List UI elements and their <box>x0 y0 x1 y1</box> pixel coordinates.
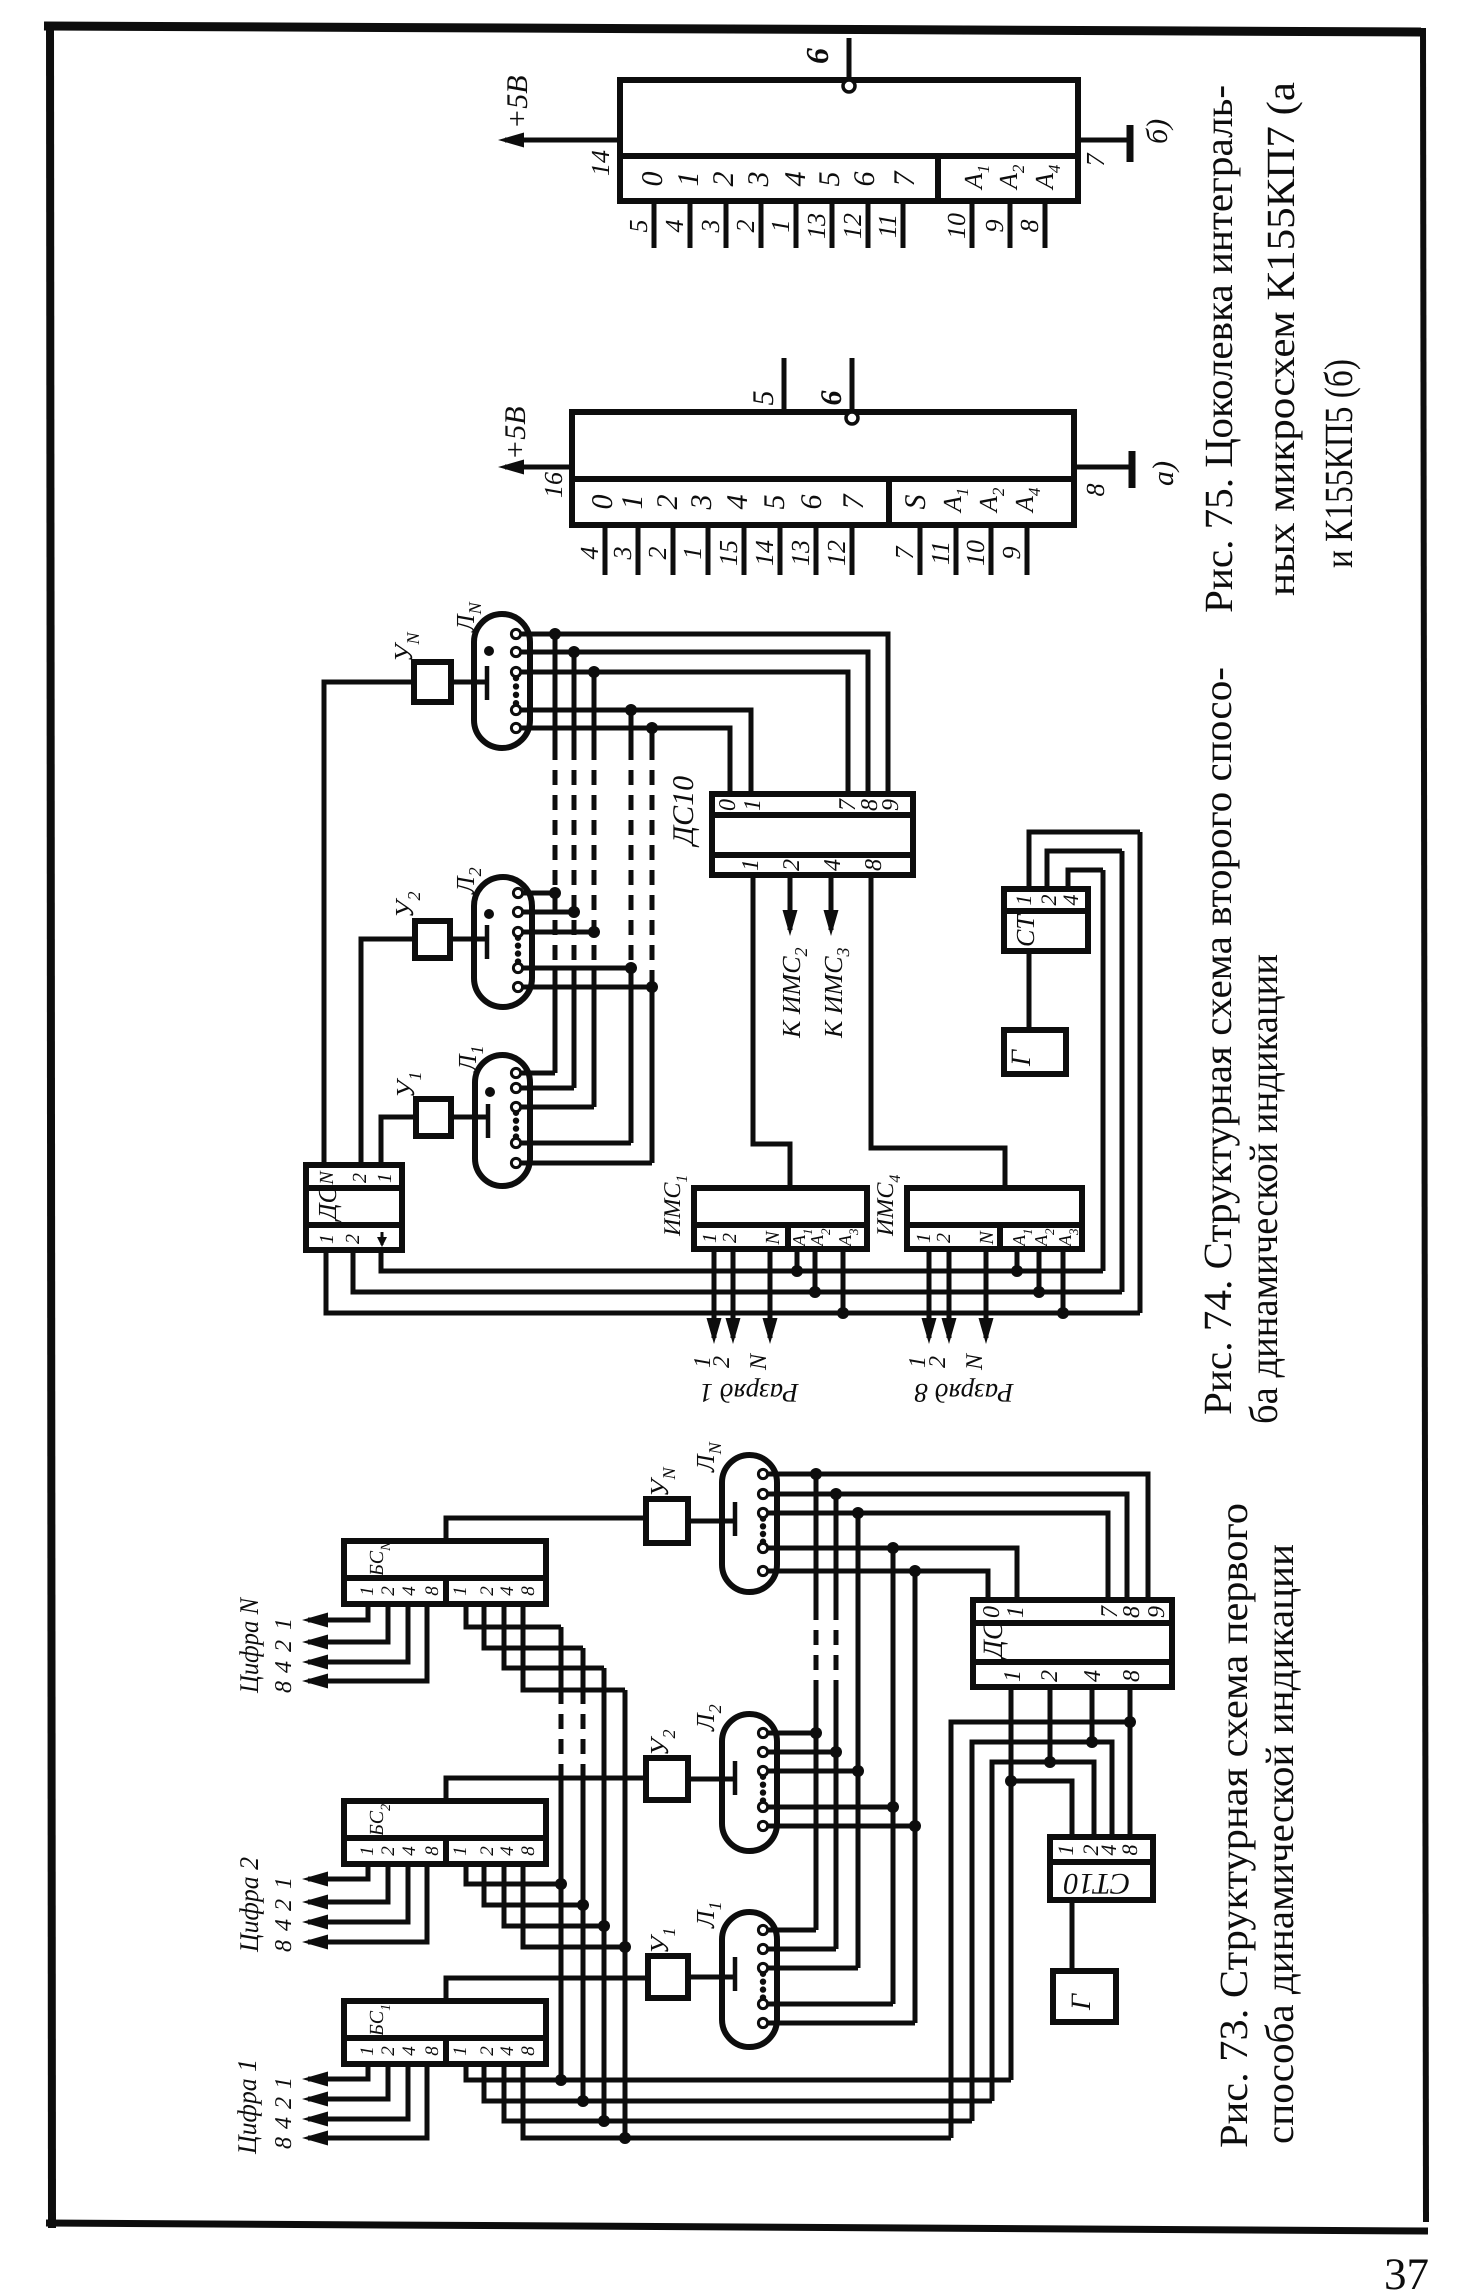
svg-text:0: 0 <box>715 799 741 811</box>
IC U1 ground symbol <box>1129 451 1136 488</box>
generator Г box fig73 <box>1053 1971 1116 2022</box>
IC U1 ground wire pin 8 <box>1074 465 1131 470</box>
svg-text:8: 8 <box>271 2137 297 2149</box>
wire У1 to Л1 <box>688 1975 735 1980</box>
wire У1 input from ДС output 1 <box>381 1117 416 1167</box>
svg-text:13: 13 <box>786 540 815 566</box>
svg-text:Рис. 75. Цоколевка интеграль-: Рис. 75. Цоколевка интеграль- <box>1196 85 1241 613</box>
lamp Л2 fig73 <box>722 1714 777 1851</box>
wire У2 output to Л2 <box>450 937 487 942</box>
svg-text:К ИМС2: К ИМС2 <box>777 947 811 1039</box>
svg-text:15: 15 <box>714 540 743 566</box>
svg-text:13: 13 <box>802 213 831 239</box>
svg-text:3: 3 <box>685 495 718 511</box>
svg-text:б): б) <box>1141 119 1174 144</box>
junction dot in1 <box>1005 1775 1017 1787</box>
svg-text:5: 5 <box>747 391 780 406</box>
svg-text:8: 8 <box>518 1846 539 1856</box>
ДС10 dividers fig73 <box>973 1620 1172 1626</box>
lamp Л2 fig74 <box>474 877 532 1007</box>
svg-text:Рис. 73. Структурная схема пер: Рис. 73. Структурная схема первого <box>1211 1503 1256 2148</box>
cathode bus 5 fig73 <box>913 1571 918 2023</box>
svg-text:2: 2 <box>342 1234 364 1244</box>
decoder ДС10 box fig74 <box>712 794 913 875</box>
wire У2 input from ДС output 2 <box>361 939 415 1167</box>
svg-text:1: 1 <box>672 172 705 187</box>
svg-text:8: 8 <box>422 2046 443 2056</box>
svg-text:1: 1 <box>616 495 649 510</box>
svg-text:6: 6 <box>848 172 881 187</box>
СТ input stub 4 <box>1068 870 1103 889</box>
wire ЛN cathode 7 to ДС10 <box>521 672 848 794</box>
svg-text:4: 4 <box>1080 1670 1106 1682</box>
svg-text:2: 2 <box>731 220 760 233</box>
svg-text:+5В: +5В <box>501 75 534 129</box>
svg-text:4: 4 <box>271 1919 297 1931</box>
svg-text:Разряд 1: Разряд 1 <box>699 1378 799 1408</box>
wire Л1 cathode stubs fig73 <box>768 1928 816 1933</box>
svg-text:1: 1 <box>271 1877 297 1889</box>
svg-text:8: 8 <box>1117 1845 1142 1856</box>
svg-text:1: 1 <box>357 1846 378 1856</box>
svg-text:Цифра 2: Цифра 2 <box>234 1857 264 1953</box>
wire ЛN cathode 9 to ДС10 <box>521 634 888 794</box>
ДС10 in4 stub <box>1090 1687 1095 1742</box>
lamp Л1 fig73 <box>722 1912 777 2047</box>
СТ divider fig74 <box>1004 908 1088 914</box>
wire ДС10 out 1 to ИМС1 <box>753 875 790 1188</box>
IC U1 inner divider <box>572 476 1074 482</box>
svg-text:ДС: ДС <box>313 1185 342 1223</box>
svg-text:S: S <box>899 495 932 510</box>
svg-text:2: 2 <box>925 1356 951 1368</box>
svg-text:N: N <box>762 1230 784 1246</box>
svg-text:1: 1 <box>450 2046 471 2056</box>
lamp Л1 fig74 <box>475 1055 530 1186</box>
svg-text:6: 6 <box>799 48 835 64</box>
svg-text:СТ: СТ <box>1011 914 1040 947</box>
wire Л1 cathode stubs fig74 <box>521 1071 555 1076</box>
cathode bus 5 fig74 <box>650 985 655 1163</box>
ИМС4 output arrows 1 2 N <box>927 1249 932 1338</box>
svg-text:8: 8 <box>271 1681 297 1693</box>
svg-text:1: 1 <box>699 1233 721 1243</box>
svg-text:2: 2 <box>378 1586 399 1596</box>
svg-text:6: 6 <box>815 391 848 406</box>
page frame bottom edge <box>46 2223 1428 2231</box>
svg-text:ДС: ДС <box>978 1621 1009 1661</box>
СТ10 divider <box>1050 1859 1153 1865</box>
register БСN box <box>344 1541 546 1604</box>
data bus bit8 fig73 <box>623 1690 628 2138</box>
svg-text:Г: Г <box>1066 1993 1097 2011</box>
svg-text:8: 8 <box>1119 1606 1145 1618</box>
ДС10 in8 to СТ10 in8 <box>1128 1687 1133 1837</box>
ИМС1 divider <box>694 1222 867 1228</box>
svg-text:ных микросхем К155КП7 (а: ных микросхем К155КП7 (а <box>1258 82 1303 596</box>
svg-text:1: 1 <box>271 1618 297 1630</box>
amplifier У2 fig73 <box>646 1758 688 1800</box>
svg-text:4: 4 <box>497 2046 518 2056</box>
cathode bus 3 fig73 <box>856 1513 861 1968</box>
IC U2 К155КП7 body <box>620 80 1078 201</box>
svg-text:2: 2 <box>378 1846 399 1856</box>
data bus bit4 fig73 <box>602 1668 607 2121</box>
svg-text:1: 1 <box>1011 895 1036 906</box>
svg-text:N: N <box>316 1170 338 1186</box>
ИМС4 address pin stubs <box>1015 1249 1020 1271</box>
amplifier У1 fig73 <box>648 1956 688 1998</box>
wire УN output to ЛN <box>451 680 487 685</box>
junction dot in4 <box>1086 1736 1098 1748</box>
svg-text:2: 2 <box>707 172 740 187</box>
page frame top edge <box>44 26 1421 32</box>
generator Г box fig74 <box>1004 1030 1066 1074</box>
svg-text:10: 10 <box>961 540 990 566</box>
IC U2 strobe pin 6 inversion circle <box>843 80 855 92</box>
ИМС1 strip split <box>785 1225 791 1249</box>
mux ИМС1 box <box>694 1188 867 1249</box>
arrow ДС10 out 2 К ИМС2 <box>788 875 793 930</box>
ДС10 divider lines fig74 <box>712 852 913 858</box>
svg-text:12: 12 <box>838 213 867 239</box>
wire БС2 strobe to У2 <box>446 1778 646 1801</box>
svg-text:Цифра 1: Цифра 1 <box>232 2059 262 2155</box>
svg-text:N: N <box>976 1230 998 1246</box>
svg-text:1: 1 <box>450 1586 471 1596</box>
wire ДС out 3 / bus A fig74 <box>381 1250 1103 1271</box>
cathode bus 1 fig74 <box>553 985 558 1073</box>
svg-text:2: 2 <box>651 495 684 510</box>
svg-text:5: 5 <box>624 220 653 233</box>
svg-text:СТ10: СТ10 <box>1064 1867 1131 1900</box>
svg-text:37: 37 <box>1384 2249 1429 2296</box>
cathode bus 3 fig74 <box>592 985 597 1107</box>
svg-text:2: 2 <box>271 2097 297 2109</box>
junction dots ИМС4 address <box>1011 1265 1023 1277</box>
svg-text:4: 4 <box>779 172 812 187</box>
ИМС1 output arrows 1 2 N <box>712 1249 717 1338</box>
junction dots ЛN drops <box>549 628 561 640</box>
svg-text:4: 4 <box>271 2117 297 2129</box>
svg-text:8: 8 <box>518 2046 539 2056</box>
svg-text:2: 2 <box>271 1640 297 1652</box>
svg-text:Г: Г <box>1006 1049 1037 1067</box>
svg-text:8: 8 <box>1081 484 1110 497</box>
svg-text:2: 2 <box>719 1233 741 1243</box>
wire УN to ЛN <box>688 1519 735 1524</box>
svg-text:6: 6 <box>795 495 828 510</box>
amplifier У2 fig74 <box>415 921 450 958</box>
svg-text:14: 14 <box>750 540 779 566</box>
ИМС4 divider <box>907 1222 1082 1228</box>
ИМС1 address pin stubs <box>795 1249 800 1271</box>
wire rail bit8 fig73 <box>951 1722 1130 2138</box>
svg-text:16: 16 <box>539 472 568 498</box>
svg-text:способа динамической индикации: способа динамической индикации <box>1257 1544 1302 2144</box>
svg-text:11: 11 <box>873 214 902 238</box>
IC U1 strobe pin 5 wire <box>782 358 787 412</box>
svg-text:0: 0 <box>586 495 619 510</box>
wire ДС10 out 8 to ИМС4 <box>871 875 1005 1188</box>
svg-text:1: 1 <box>766 220 795 233</box>
svg-text:4: 4 <box>399 2046 420 2056</box>
svg-text:7: 7 <box>1081 153 1110 167</box>
lamp ЛN fig73 <box>722 1455 777 1592</box>
wire ДС10 in1 rail fig73 <box>1009 1687 1014 2080</box>
svg-text:Разряд 8: Разряд 8 <box>914 1378 1015 1408</box>
data bus bit2 fig73 <box>581 1779 586 2101</box>
svg-text:2: 2 <box>271 1899 297 1911</box>
wire ЛN cathode 8 fig73 <box>768 1494 1127 1600</box>
svg-text:1: 1 <box>740 799 766 811</box>
svg-text:3: 3 <box>696 220 725 234</box>
page frame left edge <box>50 22 52 2228</box>
svg-text:1: 1 <box>678 547 707 560</box>
svg-text:4: 4 <box>721 495 754 510</box>
junction dots buses to bottom rails <box>555 2074 567 2086</box>
junction dots Л2 fig73 <box>810 1727 822 1739</box>
mux ИМС4 box <box>907 1188 1082 1249</box>
svg-text:3: 3 <box>608 547 637 561</box>
svg-text:1: 1 <box>316 1234 338 1244</box>
БС2 bus taps <box>466 1864 561 1884</box>
register БС1 box <box>344 2001 546 2064</box>
wire ЛN cathode 0 to ДС10 <box>521 728 730 794</box>
svg-text:8: 8 <box>271 1940 297 1952</box>
svg-text:14: 14 <box>586 150 615 176</box>
svg-text:2: 2 <box>933 1233 955 1243</box>
svg-text:2: 2 <box>779 859 805 871</box>
svg-text:10: 10 <box>942 213 971 239</box>
wire Л2 cathode stubs fig74 <box>521 891 555 896</box>
wire У2 to Л2 <box>688 1777 735 1782</box>
svg-text:2: 2 <box>378 2046 399 2056</box>
svg-text:2: 2 <box>477 1846 498 1856</box>
page frame right edge <box>1423 28 1426 2222</box>
wire rail bit2 fig73 <box>992 1762 1094 2101</box>
cathode bus 2 fig73 <box>834 1695 839 1949</box>
svg-text:1: 1 <box>357 2046 378 2056</box>
arrow ДС10 out 4 К ИМС3 <box>829 875 834 930</box>
decoder ДС box fig74 <box>306 1165 402 1250</box>
svg-text:0: 0 <box>636 172 669 187</box>
svg-text:9: 9 <box>1144 1606 1170 1618</box>
БСN bus taps <box>466 1603 561 1627</box>
СТ input stub 2 <box>1047 851 1122 889</box>
IC U2 ground wire pin 7 <box>1078 138 1128 143</box>
counter СТ box fig74 <box>1004 889 1088 951</box>
svg-text:8: 8 <box>1015 220 1044 233</box>
svg-text:4: 4 <box>399 1846 420 1856</box>
decoder ДС10 box fig73 <box>973 1600 1172 1687</box>
wire ЛN cathode 7 fig73 <box>768 1513 1108 1600</box>
svg-text:1: 1 <box>450 1846 471 1856</box>
junction dots ЛN lines fig73 <box>810 1468 822 1480</box>
IC U2 ground symbol <box>1127 125 1134 162</box>
svg-text:8: 8 <box>518 1586 539 1596</box>
svg-text:2: 2 <box>709 1356 735 1368</box>
branch to СТ10 in1 <box>1011 1781 1072 1837</box>
svg-text:а): а) <box>1147 461 1180 486</box>
svg-text:ба динамической индикации: ба динамической индикации <box>1241 954 1286 1424</box>
svg-text:4: 4 <box>497 1586 518 1596</box>
svg-text:+5В: +5В <box>499 406 532 460</box>
cathode bus 2 fig74 <box>572 985 577 1088</box>
svg-text:1: 1 <box>357 1586 378 1596</box>
СТ input stub 1 <box>1029 832 1140 889</box>
svg-text:4: 4 <box>660 220 689 233</box>
IC U1 +5V supply wire <box>505 465 572 470</box>
svg-text:8: 8 <box>1119 1670 1145 1682</box>
amplifier УN fig73 <box>646 1499 688 1543</box>
address bus riser C <box>1138 832 1143 1313</box>
junction dot in8 <box>1124 1716 1136 1728</box>
БС1 taps joining bottom buses <box>466 2064 1011 2080</box>
svg-text:4: 4 <box>497 1846 518 1856</box>
svg-text:0: 0 <box>979 1606 1005 1618</box>
svg-text:1: 1 <box>738 859 764 871</box>
wire ЛN cathode 9 fig73 <box>768 1474 1148 1600</box>
svg-text:7: 7 <box>888 170 921 187</box>
amplifier УN fig74 <box>414 662 451 702</box>
IC U1 pin stubs <box>603 525 608 575</box>
svg-text:и К155КП5 (б): и К155КП5 (б) <box>1316 359 1361 568</box>
IC U2 strobe pin 6 wire <box>847 38 852 79</box>
address bus riser A <box>1101 870 1106 1271</box>
address bus riser B <box>1120 851 1125 1292</box>
counter СТ10 box <box>1050 1837 1153 1900</box>
svg-text:7: 7 <box>837 493 870 510</box>
IC U2 inner divider <box>620 153 1078 159</box>
svg-text:2: 2 <box>1037 1670 1063 1682</box>
cathode bus 1 fig73 <box>814 1695 819 1930</box>
wire Г to СТ10 <box>1070 1900 1075 1971</box>
wire ДС out 2 / bus B fig74 <box>353 1250 1122 1292</box>
svg-text:1: 1 <box>1053 1845 1078 1856</box>
БСN output arrows Цифра N <box>308 1603 368 1620</box>
svg-text:N: N <box>746 1352 772 1371</box>
svg-text:2: 2 <box>477 1586 498 1596</box>
junction dots Л2 fig74 <box>549 887 561 899</box>
junction dots БС2 taps <box>555 1878 567 1890</box>
svg-text:2: 2 <box>349 1173 371 1183</box>
svg-text:К ИМС3: К ИМС3 <box>819 947 853 1039</box>
svg-text:5: 5 <box>758 495 791 510</box>
svg-text:4: 4 <box>820 859 846 871</box>
svg-text:11: 11 <box>926 541 955 565</box>
ИМС4 strip split <box>997 1225 1003 1249</box>
data bus bit1 fig73 <box>559 1779 564 2080</box>
wire Л2 cathode stubs fig73 <box>768 1731 816 1736</box>
svg-text:4: 4 <box>399 1586 420 1596</box>
amplifier У1 fig74 <box>416 1099 451 1136</box>
svg-text:5: 5 <box>813 172 846 187</box>
svg-text:8: 8 <box>861 859 887 871</box>
svg-text:9: 9 <box>997 547 1026 560</box>
svg-text:N: N <box>962 1352 988 1371</box>
wire rail bit4 fig73 <box>972 1742 1112 2121</box>
svg-text:4: 4 <box>1058 895 1083 906</box>
БС1 output arrows Цифра 1 <box>308 2064 368 2079</box>
wire Г to СТ fig74 <box>1027 951 1032 1030</box>
wire БСN strobe to УN <box>446 1518 646 1541</box>
register БС2 box <box>344 1801 546 1864</box>
ДС divider lines <box>306 1185 402 1191</box>
IC U1 label strip split <box>886 479 892 525</box>
wire ЛN cathode 1 to ДС10 <box>521 710 751 794</box>
svg-text:1: 1 <box>1000 1670 1026 1682</box>
cathode bus 4 fig74 <box>629 985 634 1143</box>
svg-text:7: 7 <box>890 546 919 560</box>
IC U2 +5V supply wire <box>505 138 620 143</box>
svg-text:12: 12 <box>822 540 851 566</box>
svg-text:ДС10: ДС10 <box>667 776 700 848</box>
svg-text:1: 1 <box>271 2077 297 2089</box>
svg-text:3: 3 <box>742 172 775 188</box>
IC U1 strobe pin 6 wire <box>850 358 855 411</box>
IC U1 strobe pin 6 inversion circle <box>846 412 858 424</box>
svg-text:9: 9 <box>878 799 904 811</box>
cathode bus 4 fig73 <box>891 1548 896 2004</box>
IC U2 label strip split <box>935 156 941 201</box>
IC U2 pin stubs <box>652 201 657 248</box>
svg-text:1: 1 <box>913 1233 935 1243</box>
junction dot in2 <box>1044 1756 1056 1768</box>
svg-text:4: 4 <box>271 1661 297 1673</box>
svg-text:8: 8 <box>422 1586 443 1596</box>
lamp ЛN fig74 <box>474 614 530 748</box>
junction dots ИМС1 address <box>791 1265 803 1277</box>
wire ЛN cathode 1 fig73 <box>768 1548 1017 1600</box>
svg-text:2: 2 <box>477 2046 498 2056</box>
svg-text:Рис. 74. Структурная схема вто: Рис. 74. Структурная схема второго спосо… <box>1195 667 1240 1415</box>
ДС10 in2 stub <box>1048 1687 1053 1762</box>
wire БС1 strobe to У1 <box>446 1978 648 2001</box>
БС2 output arrows Цифра 2 <box>308 1864 368 1879</box>
svg-text:2: 2 <box>643 547 672 560</box>
wire У1 output to Л1 <box>451 1115 488 1120</box>
svg-text:9: 9 <box>980 220 1009 233</box>
svg-text:1: 1 <box>374 1173 396 1183</box>
wire УN input from ДС output N <box>324 682 414 1167</box>
svg-text:4: 4 <box>575 547 604 560</box>
svg-text:Цифра N: Цифра N <box>234 1596 264 1694</box>
svg-text:1: 1 <box>1003 1606 1029 1618</box>
svg-text:8: 8 <box>422 1846 443 1856</box>
IC U1 К155КП5 body <box>572 412 1074 525</box>
wire ДС out 1 / bus C fig74 <box>326 1250 1140 1313</box>
wire ЛN cathode 0 fig73 <box>768 1571 988 1600</box>
wire ЛN cathode 8 to ДС10 <box>521 652 868 794</box>
